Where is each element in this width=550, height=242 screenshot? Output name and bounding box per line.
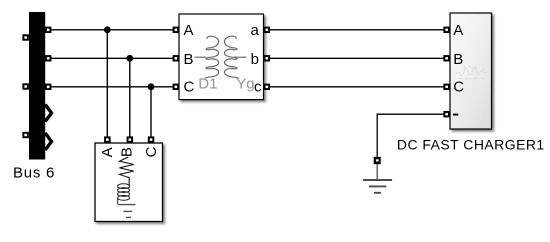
svg-text:a: a — [251, 22, 260, 39]
svg-text:D1: D1 — [198, 76, 217, 93]
svg-text:DC FAST CHARGER1: DC FAST CHARGER1 — [397, 137, 545, 153]
svg-text:C: C — [143, 146, 160, 157]
svg-text:B: B — [184, 51, 194, 68]
svg-text:A: A — [99, 147, 116, 157]
svg-text:Bus 6: Bus 6 — [13, 165, 55, 182]
svg-text:Yg: Yg — [236, 76, 254, 93]
svg-text:A: A — [453, 22, 463, 39]
svg-text:C: C — [184, 78, 195, 95]
svg-text:c: c — [254, 78, 262, 95]
svg-text:B: B — [119, 147, 136, 157]
svg-text:b: b — [251, 51, 259, 68]
svg-text:A: A — [184, 22, 194, 39]
svg-text:B: B — [453, 51, 463, 68]
svg-text:C: C — [453, 78, 464, 95]
